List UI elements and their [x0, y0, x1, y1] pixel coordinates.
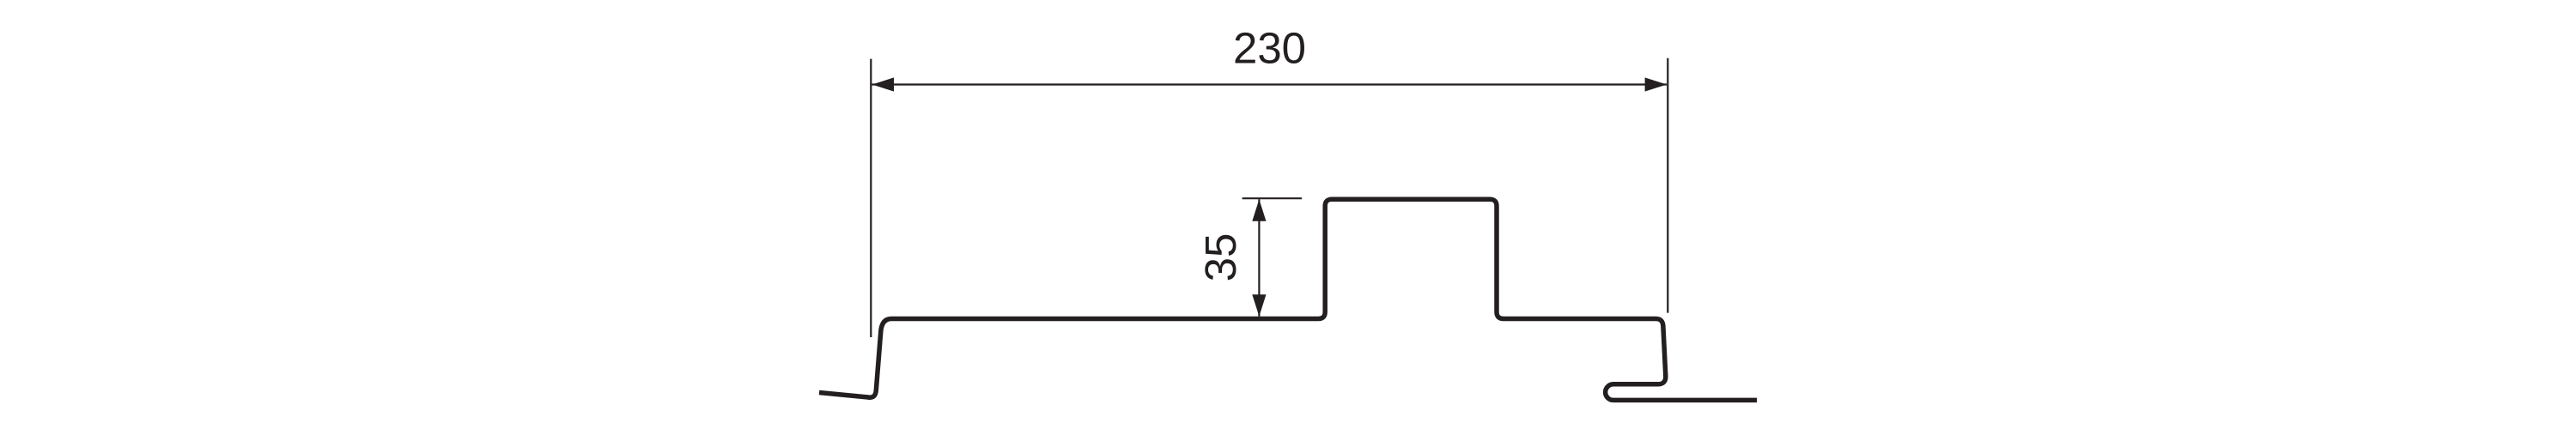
dimension 230: right arrowhead — [1645, 77, 1668, 91]
dimension 35: bottom arrowhead — [1252, 294, 1266, 317]
profile outline of metal panel — [819, 199, 1757, 400]
dimension 35: vertical dimension line — [1258, 199, 1260, 316]
svg-text:35: 35 — [1196, 233, 1245, 282]
dimension 35: top arrowhead — [1252, 199, 1266, 221]
dimension 230: left extension line — [870, 59, 872, 337]
dimension 230: left arrowhead — [872, 77, 895, 91]
dimension 35: top tick line — [1242, 197, 1302, 199]
dimension 230: dimension line — [872, 83, 1668, 85]
dimension 230: right extension line — [1667, 58, 1668, 313]
svg-text:230: 230 — [1233, 24, 1306, 73]
